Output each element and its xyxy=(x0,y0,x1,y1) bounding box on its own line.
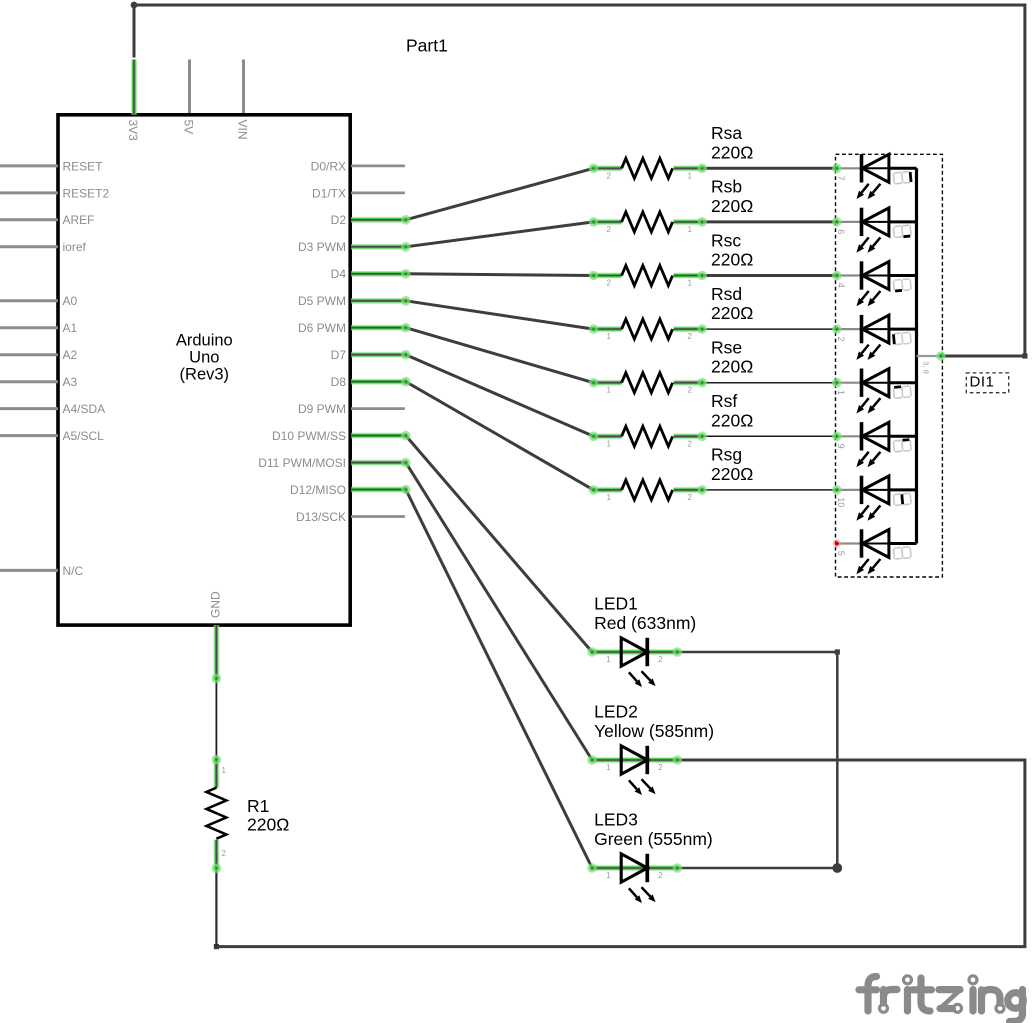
pin 3V3 (connected) xyxy=(131,60,137,115)
svg-text:1: 1 xyxy=(607,386,612,395)
node: junction of LED1/LED3 xyxy=(832,863,842,873)
svg-text:LED1: LED1 xyxy=(594,594,638,614)
pin A1 xyxy=(0,326,58,329)
svg-text:2: 2 xyxy=(688,493,693,502)
resistor Rsb 220 ohm xyxy=(589,177,754,234)
svg-text:2: 2 xyxy=(658,655,663,664)
wire D2 to Rsa xyxy=(406,168,594,220)
svg-text:AREF: AREF xyxy=(63,213,95,227)
svg-text:6: 6 xyxy=(836,229,846,234)
resistor Rsg 220 ohm xyxy=(589,445,754,502)
svg-text:4: 4 xyxy=(836,283,846,288)
svg-text:VIN: VIN xyxy=(235,120,249,140)
wire Rsd to DI1 xyxy=(702,328,837,330)
wire D11 to LED2 xyxy=(406,463,592,760)
DI1 internal LED segment dp (pin 5) xyxy=(833,529,917,574)
pin D6 PWM xyxy=(351,325,406,331)
svg-text:5: 5 xyxy=(836,551,846,556)
svg-text:Yellow (585nm): Yellow (585nm) xyxy=(594,721,714,741)
svg-text:Part1: Part1 xyxy=(406,35,448,55)
pin ioref xyxy=(0,245,58,248)
svg-text:Rsa: Rsa xyxy=(711,123,742,143)
wire D7 to Rsf xyxy=(406,355,594,437)
wire GND to R1 xyxy=(215,679,217,760)
pin D10 PWM/SS xyxy=(351,433,406,439)
svg-text:Rse: Rse xyxy=(711,338,742,358)
svg-text:9: 9 xyxy=(836,444,846,449)
svg-text:Red (633nm): Red (633nm) xyxy=(594,613,696,633)
DI1 internal LED segment d (pin 2) xyxy=(832,315,917,360)
svg-text:1: 1 xyxy=(688,171,693,180)
svg-text:Rsd: Rsd xyxy=(711,284,742,304)
svg-text:2: 2 xyxy=(688,439,693,448)
LED LED2 Yellow (585nm) xyxy=(587,702,714,796)
resistor Rsa 220 ohm xyxy=(589,123,754,180)
svg-text:1: 1 xyxy=(688,279,693,288)
fritzing watermark xyxy=(859,976,1023,1022)
pin D5 PWM xyxy=(351,298,406,304)
svg-text:2: 2 xyxy=(658,871,663,880)
pin D0/RX xyxy=(351,164,405,167)
pin A5/SCL xyxy=(0,434,58,437)
svg-text:2: 2 xyxy=(607,225,612,234)
pin A4/SDA xyxy=(0,407,58,410)
svg-text:3V3: 3V3 xyxy=(126,120,140,142)
svg-text:1: 1 xyxy=(606,763,611,772)
pin A3 xyxy=(0,380,58,383)
pin RESET xyxy=(0,164,58,167)
svg-text:A3: A3 xyxy=(63,375,78,389)
pin 5V xyxy=(188,60,191,114)
label DI1 xyxy=(966,373,1008,393)
svg-text:RESET2: RESET2 xyxy=(63,186,110,200)
svg-text:220Ω: 220Ω xyxy=(711,410,753,430)
svg-text:Rsg: Rsg xyxy=(711,445,742,465)
resistor Rse 220 ohm xyxy=(589,338,754,395)
wire Rsb to DI1 xyxy=(702,220,837,223)
svg-text:A1: A1 xyxy=(63,321,78,335)
svg-text:D10 PWM/SS: D10 PWM/SS xyxy=(272,429,346,443)
svg-text:A2: A2 xyxy=(63,348,78,362)
DI1 common anode bus xyxy=(915,168,918,543)
DI1 internal LED segment f (pin 9) xyxy=(832,422,917,467)
svg-text:A0: A0 xyxy=(63,294,78,308)
svg-text:D1/TX: D1/TX xyxy=(312,186,346,200)
svg-text:Rsc: Rsc xyxy=(711,230,741,250)
svg-text:Arduino: Arduino xyxy=(176,332,233,350)
svg-text:D0/RX: D0/RX xyxy=(311,159,346,173)
svg-text:GND: GND xyxy=(209,591,223,618)
svg-text:220Ω: 220Ω xyxy=(247,815,289,835)
DI1 internal LED segment e (pin 1) xyxy=(832,369,917,414)
pin D3 PWM xyxy=(351,244,406,250)
svg-text:1: 1 xyxy=(607,332,612,341)
svg-text:1: 1 xyxy=(836,390,846,395)
DI1 internal LED segment c (pin 4) xyxy=(832,261,917,306)
svg-text:D6 PWM: D6 PWM xyxy=(298,321,346,335)
svg-text:5V: 5V xyxy=(181,120,195,135)
LED LED3 Green (555nm) xyxy=(587,810,712,904)
svg-text:D7: D7 xyxy=(331,348,347,362)
pin D8 xyxy=(351,379,406,385)
pin D11 PWM/MOSI xyxy=(351,460,406,466)
svg-text:D9 PWM: D9 PWM xyxy=(298,402,346,416)
wire Rse to DI1 xyxy=(702,382,837,384)
svg-text:Green (555nm): Green (555nm) xyxy=(594,829,713,849)
pin A0 xyxy=(0,299,58,302)
svg-text:7: 7 xyxy=(836,176,846,181)
pin D9 PWM xyxy=(351,407,405,410)
Arduino Uno Part1 body xyxy=(58,115,350,625)
svg-text:(Rev3): (Rev3) xyxy=(180,366,230,384)
svg-text:D13/SCK: D13/SCK xyxy=(296,510,346,524)
svg-text:220Ω: 220Ω xyxy=(711,196,753,216)
svg-text:1: 1 xyxy=(606,871,611,880)
resistor Rsc 220 ohm xyxy=(589,230,754,287)
pin VIN xyxy=(242,60,245,114)
svg-text:D3 PWM: D3 PWM xyxy=(298,240,346,254)
wire Rsf to DI1 xyxy=(702,435,837,437)
wire D12 to LED3 xyxy=(406,490,592,869)
svg-text:2: 2 xyxy=(222,849,227,858)
resistor Rsf 220 ohm xyxy=(589,391,754,448)
wire: 3V3 to DI1 common anode xyxy=(134,5,1025,356)
DI1 internal LED segment b (pin 6) xyxy=(832,208,917,253)
wire Rsc to DI1 xyxy=(702,274,837,277)
svg-text:10: 10 xyxy=(836,497,846,507)
svg-text:A5/SCL: A5/SCL xyxy=(63,429,105,443)
svg-text:1: 1 xyxy=(222,766,227,775)
wire Rsg to DI1 xyxy=(702,489,837,491)
pin D13/SCK xyxy=(351,515,405,518)
DI1 internal LED segment a (pin 7) xyxy=(832,154,917,199)
pin GND (connected) xyxy=(213,625,219,679)
wire D4 to Rsc xyxy=(406,274,594,276)
svg-text:2: 2 xyxy=(688,386,693,395)
svg-text:D4: D4 xyxy=(331,267,347,281)
svg-text:D11 PWM/MOSI: D11 PWM/MOSI xyxy=(258,456,346,470)
resistor R1 220 ohm xyxy=(206,755,226,873)
pin AREF xyxy=(0,218,58,221)
svg-text:220Ω: 220Ω xyxy=(711,464,753,484)
svg-text:A4/SDA: A4/SDA xyxy=(63,402,106,416)
DI1 pin 3,8 common anode xyxy=(917,355,941,357)
svg-text:N/C: N/C xyxy=(63,564,84,578)
wire R1 to bottom return xyxy=(215,868,217,946)
svg-text:DI1: DI1 xyxy=(970,373,995,390)
pin D1/TX xyxy=(351,191,405,194)
svg-text:D5 PWM: D5 PWM xyxy=(298,294,346,308)
svg-text:ioref: ioref xyxy=(63,240,87,254)
svg-text:2: 2 xyxy=(836,336,846,341)
wire LED3 to junction xyxy=(677,867,837,870)
wire D10 to LED1 xyxy=(406,436,592,652)
7-segment display DI1 outline xyxy=(836,154,943,577)
node: bendpoint on 3V3 wire xyxy=(131,2,138,9)
svg-text:Rsf: Rsf xyxy=(711,391,737,411)
svg-text:2: 2 xyxy=(658,763,663,772)
wire D5 to Rsd xyxy=(406,301,594,329)
svg-text:1: 1 xyxy=(688,225,693,234)
svg-text:LED2: LED2 xyxy=(594,702,638,722)
wire D6 to Rse xyxy=(406,328,594,383)
svg-text:LED3: LED3 xyxy=(594,810,638,830)
svg-text:Rsb: Rsb xyxy=(711,177,742,197)
svg-text:R1: R1 xyxy=(247,796,269,816)
pin A2 xyxy=(0,353,58,356)
pin D2 xyxy=(351,217,406,223)
svg-text:D12/MISO: D12/MISO xyxy=(290,483,346,497)
pin RESET2 xyxy=(0,191,58,194)
wire D8 to Rsg xyxy=(406,382,594,490)
svg-text:220Ω: 220Ω xyxy=(711,250,753,270)
svg-text:2: 2 xyxy=(607,279,612,288)
pin N/C xyxy=(0,569,58,572)
DI1 internal LED segment g (pin 10) xyxy=(832,476,917,521)
svg-text:2: 2 xyxy=(688,332,693,341)
wire LED2 to R1 bottom return xyxy=(216,760,1025,947)
svg-text:220Ω: 220Ω xyxy=(711,142,753,162)
pin D7 xyxy=(351,352,406,358)
svg-text:2: 2 xyxy=(607,171,612,180)
svg-text:220Ω: 220Ω xyxy=(711,357,753,377)
wire Rsa to DI1 xyxy=(702,167,837,170)
wire LED1 to junction xyxy=(677,652,837,868)
pin D12/MISO xyxy=(351,487,406,493)
svg-text:3, 8: 3, 8 xyxy=(922,361,931,374)
resistor Rsd 220 ohm xyxy=(589,284,754,341)
svg-text:D2: D2 xyxy=(331,213,347,227)
svg-text:Uno: Uno xyxy=(189,349,219,367)
svg-text:RESET: RESET xyxy=(63,159,104,173)
LED LED1 Red (633nm) xyxy=(587,594,696,688)
svg-text:D8: D8 xyxy=(331,375,347,389)
svg-text:1: 1 xyxy=(607,493,612,502)
svg-text:1: 1 xyxy=(607,439,612,448)
wire D3 to Rsb xyxy=(406,222,594,247)
pin D4 xyxy=(351,271,406,277)
svg-text:1: 1 xyxy=(606,655,611,664)
svg-text:220Ω: 220Ω xyxy=(711,303,753,323)
